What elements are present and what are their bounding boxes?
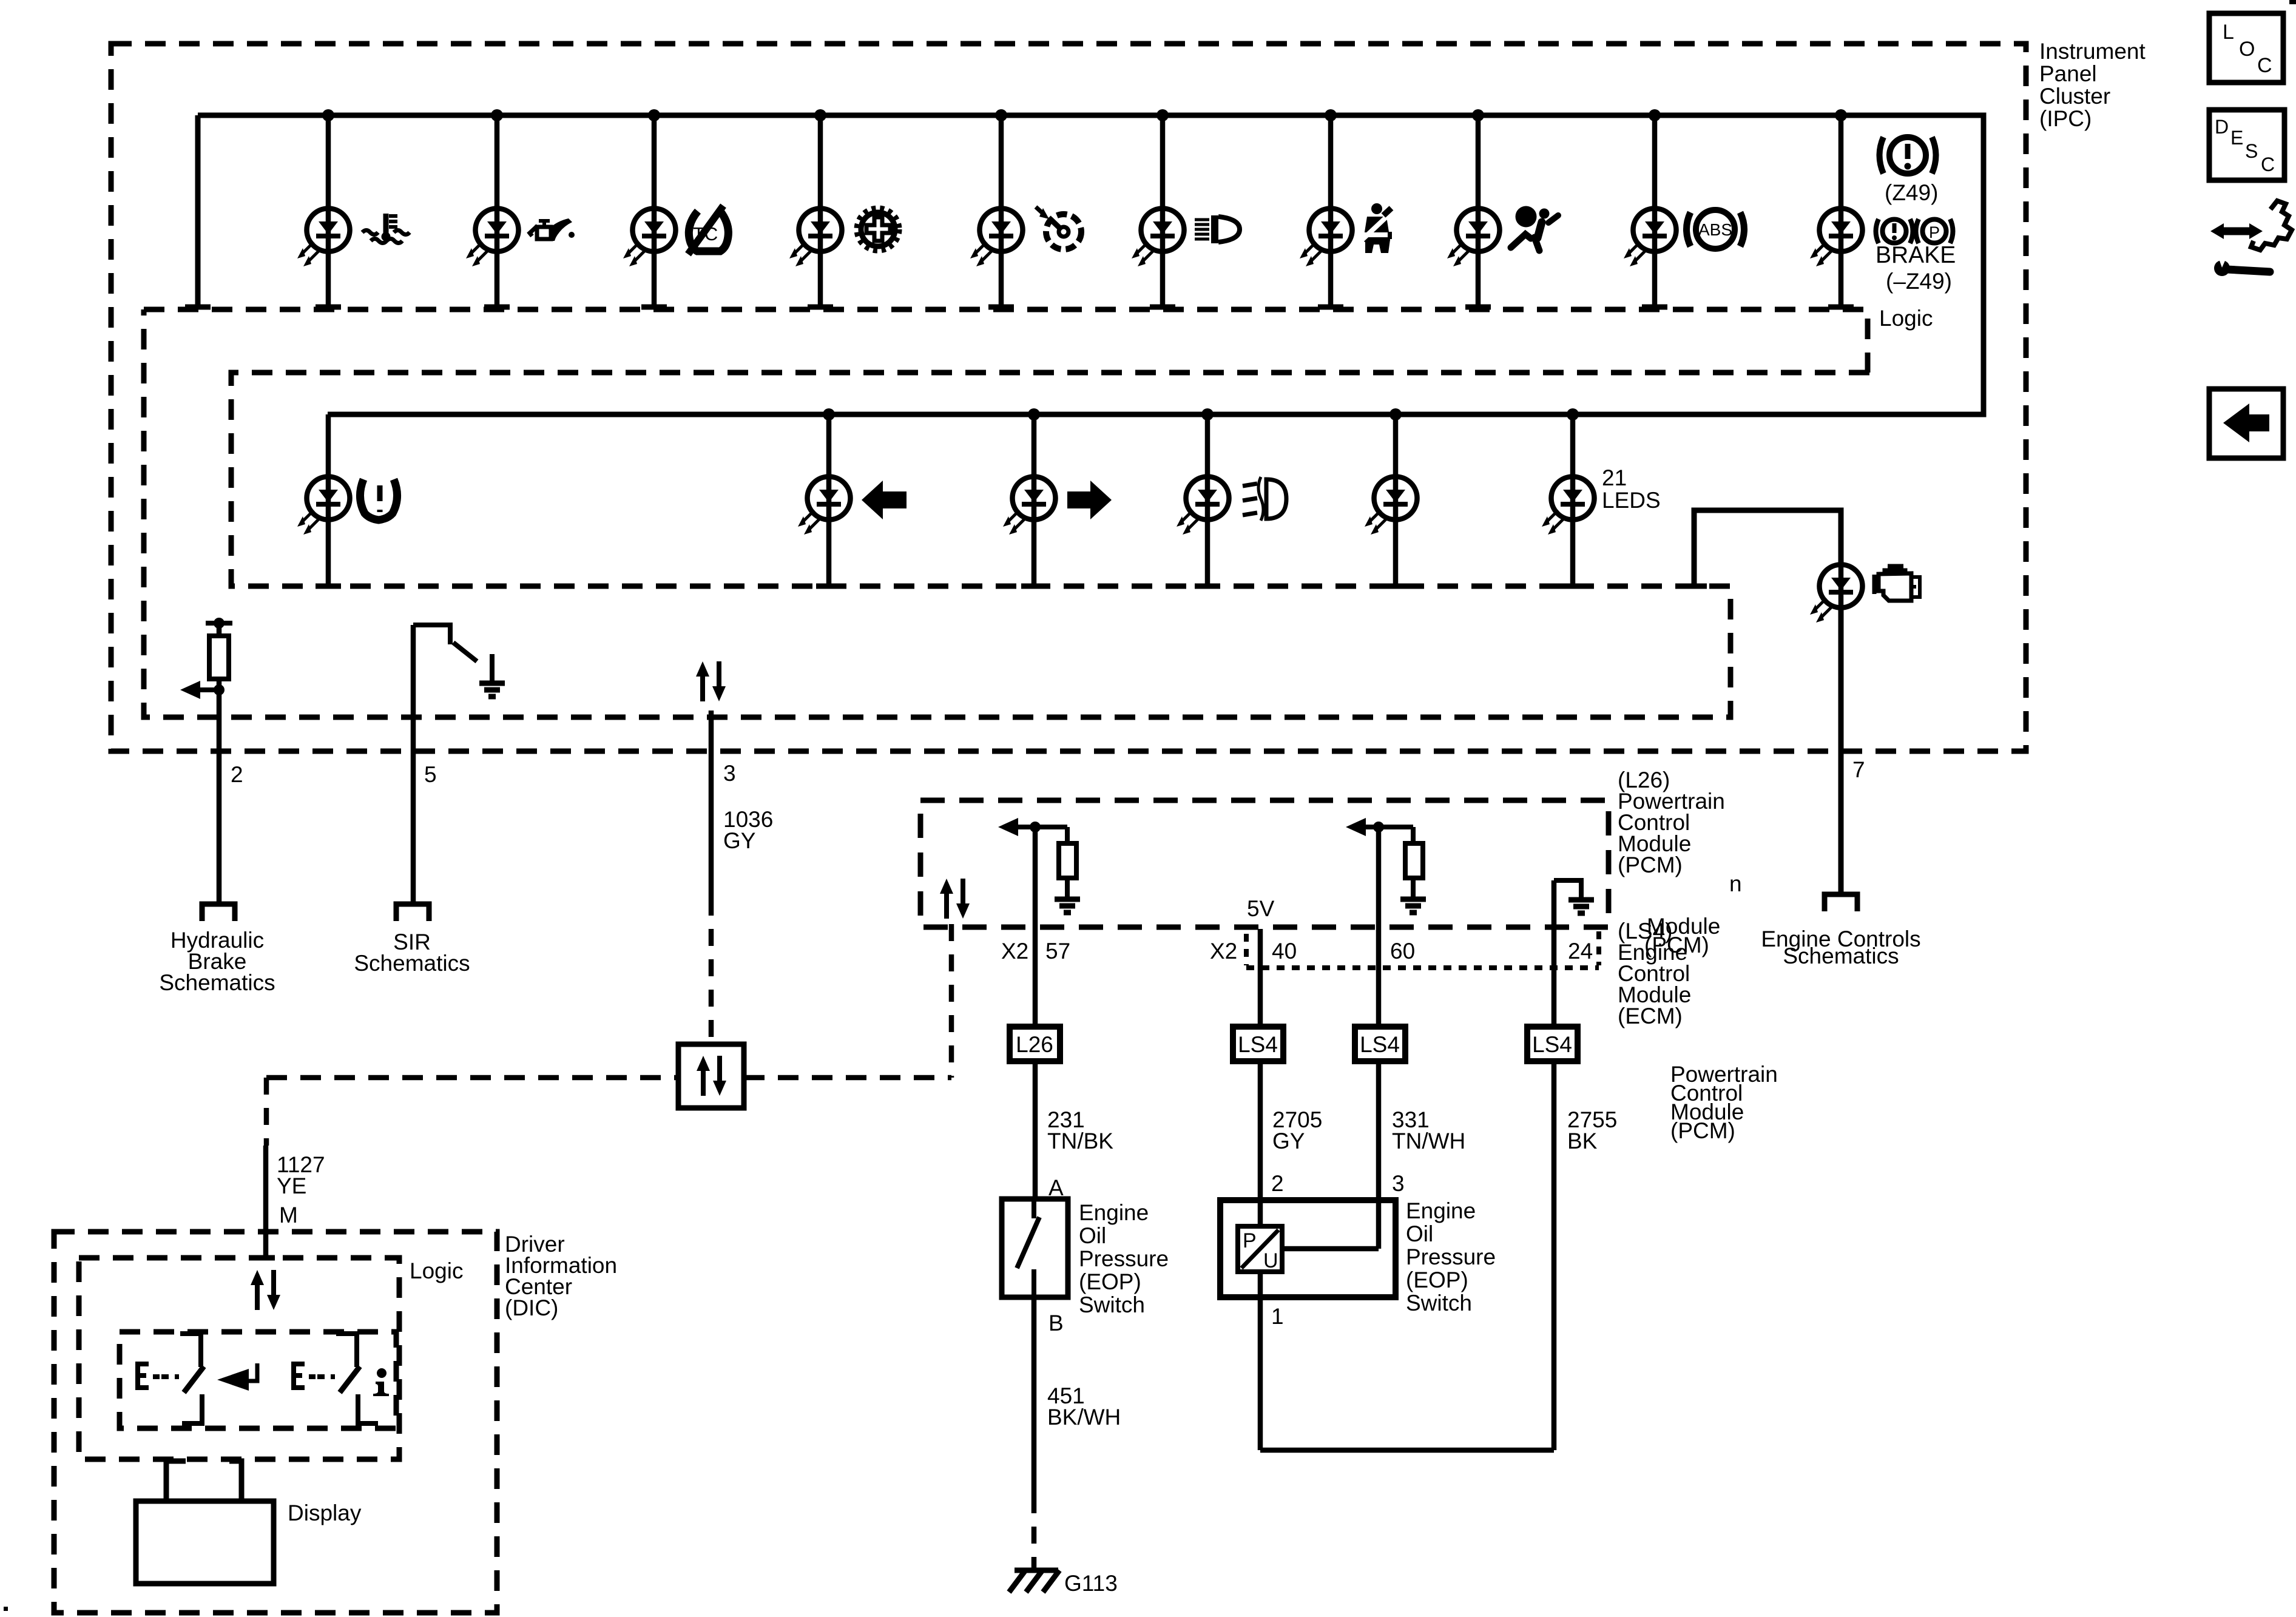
icon: gear / transmission — [857, 208, 899, 251]
LED indicator D17 (check engine) — [1810, 565, 1863, 623]
wire: dashed serial data bus right (to PCM) — [744, 1075, 951, 1081]
svg-text:Display: Display — [288, 1501, 362, 1525]
wire: row2 branch 5 — [1393, 414, 1399, 586]
svg-text:Cluster: Cluster — [2039, 84, 2110, 109]
PCM right text block — [1618, 768, 1725, 877]
off-page connector: SIR — [396, 904, 429, 921]
svg-text:Panel: Panel — [2039, 61, 2097, 86]
PCM lower-right text block — [1670, 1062, 1778, 1143]
DIC serial data arrows — [251, 1270, 280, 1310]
wire 3 (serial data 1036 GY) — [709, 711, 714, 899]
svg-text:(IPC): (IPC) — [2039, 106, 2092, 131]
svg-text:X2: X2 — [1001, 939, 1028, 964]
svg-text:C: C — [2261, 154, 2275, 175]
icon: ABS — [1687, 210, 1744, 249]
icon: oil pressure (oil can) — [530, 218, 575, 241]
svg-text:TN/BK: TN/BK — [1047, 1129, 1113, 1153]
svg-text:1: 1 — [1271, 1304, 1284, 1329]
node: bus junction row1-2 — [491, 109, 503, 121]
LED indicator D5 (cruise) — [970, 209, 1023, 267]
node: bus junction row2-2 — [823, 408, 835, 420]
svg-text:O: O — [2239, 38, 2255, 61]
wire 1127 YE — [263, 1146, 269, 1258]
connector LS4 (pin 60) — [1355, 1027, 1405, 1061]
svg-text:60: 60 — [1390, 939, 1415, 964]
connector LS4 (pin 24) — [1527, 1027, 1578, 1061]
LED indicator D4 (gear/transmission) — [789, 209, 842, 267]
wire: left end drop of bus 1 — [195, 115, 201, 307]
wire 2 with resistor (brake fluid level input) — [206, 621, 232, 626]
back arrow box — [2209, 389, 2283, 458]
svg-text:E: E — [2230, 127, 2243, 149]
icon: left turn arrow — [862, 481, 907, 519]
svg-text:(EOP): (EOP) — [1079, 1269, 1141, 1294]
pull-up circuit 1 (oil pressure switch sense) — [1004, 825, 1067, 829]
LED indicator D1 (coolant temperature) — [297, 209, 350, 267]
svg-text:3: 3 — [723, 761, 736, 786]
connector LS4 (pin 40) — [1233, 1027, 1283, 1061]
svg-text:LS4: LS4 — [1238, 1032, 1278, 1057]
LED indicator D7 (seat belt) — [1300, 209, 1352, 267]
icon: seat belt — [1361, 203, 1393, 253]
LED indicator D2 (oil pressure) — [466, 209, 519, 267]
LED indicator D16 (21 LEDS) — [1542, 477, 1595, 535]
wire: dashed serial data drop — [709, 899, 714, 1044]
svg-text:(ECM): (ECM) — [1618, 1004, 1683, 1028]
stray dot top right — [2289, 0, 2296, 4]
wire: row1 branch 1 — [326, 115, 331, 307]
node: bus junction row1-5 — [995, 109, 1007, 121]
off-page connector: engine controls — [1825, 894, 1857, 911]
EOP switch box — [1002, 1199, 1068, 1297]
icon: fog lamp — [1243, 477, 1286, 521]
svg-text:Logic: Logic — [1879, 306, 1933, 331]
serial data link box — [678, 1044, 744, 1108]
node: bus junction row1-3 — [648, 109, 660, 121]
svg-text:Oil: Oil — [1406, 1221, 1433, 1246]
svg-text:(PCM): (PCM) — [1618, 852, 1683, 877]
svg-text:(DIC): (DIC) — [505, 1295, 558, 1320]
svg-text:Pressure: Pressure — [1079, 1246, 1169, 1271]
svg-text:n: n — [1729, 871, 1742, 896]
LED indicator D9 (ABS) — [1624, 209, 1676, 267]
wire: row1 branch 3 — [652, 115, 657, 307]
switch S3 (info) — [294, 1334, 378, 1423]
svg-text:U: U — [1263, 1249, 1278, 1272]
icon: engine (check engine) — [1874, 566, 1920, 601]
ground return (pin 24) — [1554, 880, 1581, 900]
svg-text:P: P — [1243, 1229, 1257, 1252]
node: junction on wire 2 — [214, 684, 225, 695]
display connector prongs — [166, 1461, 186, 1501]
signal arrow (to hydraulic brake) — [197, 687, 219, 692]
ground (SIR switch) — [479, 683, 505, 697]
svg-text:GY: GY — [723, 828, 755, 853]
wiring pinout icon (arrow + wrench) — [2210, 201, 2292, 276]
wire: row1 branch 4 — [818, 115, 823, 307]
svg-text:BK: BK — [1567, 1129, 1598, 1153]
Powertrain Control Module (PCM) dashed box — [920, 800, 1609, 927]
svg-text:(PCM): (PCM) — [1670, 1118, 1735, 1143]
wire: row2 branch 2 — [826, 414, 832, 586]
LED indicator D10 (brake) — [1810, 209, 1863, 267]
node: bus junction row1-8 — [1472, 109, 1484, 121]
svg-text:C: C — [2257, 54, 2272, 77]
node: bus junction row1-7 — [1325, 109, 1337, 121]
node: bus junction row2-5 — [1389, 408, 1402, 420]
LED indicator D3 (traction control off) — [623, 209, 676, 267]
svg-text:GY: GY — [1272, 1129, 1305, 1153]
wire: PCM pin 60 to EOP sensor — [1376, 827, 1382, 1027]
LED indicator D6 (high beam) — [1132, 209, 1184, 267]
LED indicator D12 (left turn) — [798, 477, 851, 535]
icon: traction control off — [688, 206, 728, 254]
svg-text:24: 24 — [1568, 939, 1593, 964]
wire: row1 branch 7 — [1328, 115, 1334, 307]
svg-text:5: 5 — [424, 762, 437, 787]
wire: top supply bus (row 1) — [198, 115, 1984, 414]
svg-text:3: 3 — [1392, 1171, 1405, 1196]
node: bus junction row1-4 — [814, 109, 826, 121]
connector L26 — [1010, 1027, 1060, 1061]
node: bus junction row2-3 — [1028, 408, 1040, 420]
LOC reference box — [2209, 13, 2283, 83]
wire: row1 branch 8 — [1476, 115, 1481, 307]
wire: row1 branch 9 — [1652, 115, 1658, 307]
svg-text:(–Z49): (–Z49) — [1886, 269, 1952, 294]
svg-text:LS4: LS4 — [1532, 1032, 1572, 1057]
icon: right turn arrow — [1067, 481, 1112, 519]
resistor R3 (pull-up) — [1405, 843, 1423, 878]
svg-text:Switch: Switch — [1406, 1291, 1472, 1315]
display block — [136, 1501, 274, 1584]
switch S1 to ground (SIR input) — [413, 625, 450, 644]
icon: TPMS (tire pressure) — [360, 479, 397, 520]
icon: coolant temperature — [362, 214, 410, 243]
svg-text:21: 21 — [1602, 465, 1627, 490]
svg-text:2: 2 — [1271, 1171, 1284, 1196]
node: bus junction row2-6 — [1567, 408, 1579, 420]
wire: row2 branch 1 — [326, 414, 331, 586]
svg-text:7: 7 — [1852, 757, 1865, 782]
node: bus junction row1-10 — [1835, 109, 1847, 121]
svg-text:ABS: ABS — [1698, 220, 1732, 239]
wire: dashed serial data bus left (to DIC) — [266, 1075, 678, 1081]
EOP sensor box — [1220, 1200, 1396, 1297]
icon: cruise control (speedometer) — [1036, 207, 1081, 249]
svg-text:Logic: Logic — [410, 1258, 463, 1283]
wire: row1 branch 5 — [999, 115, 1004, 307]
svg-text:TN/WH: TN/WH — [1392, 1129, 1465, 1153]
svg-text:Schematics: Schematics — [159, 970, 275, 995]
svg-text:Schematics: Schematics — [354, 951, 470, 976]
svg-text:M: M — [279, 1203, 298, 1227]
svg-text:G113: G113 — [1064, 1571, 1118, 1596]
DIC switch dashed box — [120, 1332, 396, 1428]
svg-text:L26: L26 — [1016, 1032, 1053, 1057]
pressure transducer P/U — [1238, 1226, 1282, 1272]
wire: row1 branch 10 — [1838, 115, 1844, 307]
ground G113 (chassis) — [1009, 1570, 1059, 1592]
return/select arrow icon — [217, 1363, 257, 1391]
icon: brake warning ((!)) large — [1880, 137, 1936, 174]
IPC Logic region dashed boundary (irregular polygon) — [144, 309, 1869, 717]
svg-text:D: D — [2215, 116, 2229, 138]
ground (pull-up 2) — [1400, 899, 1426, 913]
svg-text:5V: 5V — [1247, 896, 1275, 921]
LED indicator D11 (TPMS) — [297, 477, 350, 535]
LED indicator D13 (right turn) — [1003, 477, 1056, 535]
wire: row1 branch 2 — [495, 115, 500, 307]
wire: row1 branch 6 — [1160, 115, 1166, 307]
svg-text:L: L — [2223, 21, 2234, 44]
svg-text:BK/WH: BK/WH — [1047, 1405, 1121, 1430]
ECM connector strip dashed — [1246, 931, 1599, 968]
svg-text:BRAKE: BRAKE — [1876, 242, 1956, 268]
DIC Logic dashed box — [79, 1258, 399, 1459]
IPC label text — [2039, 39, 2146, 131]
switch S2 (select) — [138, 1334, 204, 1423]
wire: sensor pin 1 return — [1258, 1272, 1263, 1450]
svg-text:B: B — [1048, 1311, 1064, 1335]
LED indicator D14 (fog lamp) — [1177, 477, 1229, 535]
wire: row2 branch 6 — [1570, 414, 1576, 586]
svg-text:40: 40 — [1272, 939, 1297, 964]
svg-text:Instrument: Instrument — [2039, 39, 2146, 64]
svg-text:Pressure: Pressure — [1406, 1244, 1496, 1269]
svg-text:Engine: Engine — [1079, 1200, 1149, 1225]
svg-text:(EOP): (EOP) — [1406, 1268, 1468, 1292]
LED indicator D8 (airbag) — [1447, 209, 1500, 267]
icon: ((P)) small — [1916, 219, 1953, 243]
resistor R2 (pull-up) — [1059, 843, 1076, 878]
Instrument Panel Cluster (IPC) dashed boundary box — [111, 44, 2026, 751]
svg-text:57: 57 — [1045, 939, 1070, 964]
svg-text:2: 2 — [231, 762, 243, 787]
serial data port arrows (IPC) — [696, 661, 726, 701]
stray dot bottom left — [4, 1607, 8, 1611]
svg-text:X2: X2 — [1210, 939, 1237, 964]
svg-text:(Z49): (Z49) — [1885, 180, 1938, 205]
wire: PCM pin 57 to EOP switch — [1033, 827, 1038, 1027]
svg-text:YE: YE — [277, 1173, 306, 1198]
ground (pull-up 1) — [1055, 899, 1080, 913]
svg-text:P: P — [1929, 223, 1940, 241]
switch S4 (EOP switch) — [1032, 1199, 1036, 1218]
svg-text:Engine: Engine — [1406, 1198, 1476, 1223]
off-page connector: hydraulic brake — [202, 904, 235, 921]
wire: ECM pin 24 ground — [1551, 880, 1557, 1027]
resistor R1 — [209, 636, 229, 679]
PCM serial data arrows — [940, 879, 970, 919]
node: bus junction row1-9 — [1649, 109, 1661, 121]
svg-text:Schematics: Schematics — [1783, 944, 1899, 968]
icon: high beam — [1195, 215, 1240, 243]
icon: airbag — [1511, 206, 1558, 251]
icon: ((!)) small — [1876, 219, 1913, 243]
pull-up circuit 2 (EOP sensor sense) — [1352, 825, 1413, 829]
wire 451 BK/WH — [1032, 1297, 1037, 1496]
svg-text:Switch: Switch — [1079, 1292, 1145, 1317]
svg-text:LS4: LS4 — [1360, 1032, 1400, 1057]
node: bus junction row1-6 — [1156, 109, 1169, 121]
svg-text:Oil: Oil — [1079, 1223, 1106, 1248]
node: bus junction row1-1 — [322, 109, 334, 121]
wire: row2 branch 3 — [1032, 414, 1037, 586]
svg-text:LEDS: LEDS — [1602, 488, 1661, 513]
Driver Information Center (DIC) dashed box — [54, 1232, 497, 1613]
wire: row2 branch 4 — [1205, 414, 1210, 586]
node: bus junction row2-4 — [1201, 408, 1214, 420]
LED indicator D15 (spare) — [1365, 477, 1417, 535]
svg-text:S: S — [2245, 140, 2258, 162]
DESC reference box — [2209, 110, 2284, 180]
wire: check engine branch from 21-LED module — [1694, 510, 1841, 892]
info "i" icon — [373, 1368, 389, 1396]
